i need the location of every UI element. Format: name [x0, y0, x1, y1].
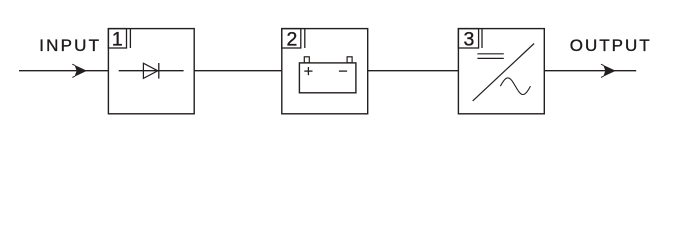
svg-text:INPUT: INPUT	[39, 36, 101, 55]
svg-text:1: 1	[112, 29, 123, 51]
svg-text:OUTPUT: OUTPUT	[570, 36, 652, 55]
svg-text:2: 2	[286, 29, 297, 51]
svg-text:3: 3	[463, 29, 474, 51]
